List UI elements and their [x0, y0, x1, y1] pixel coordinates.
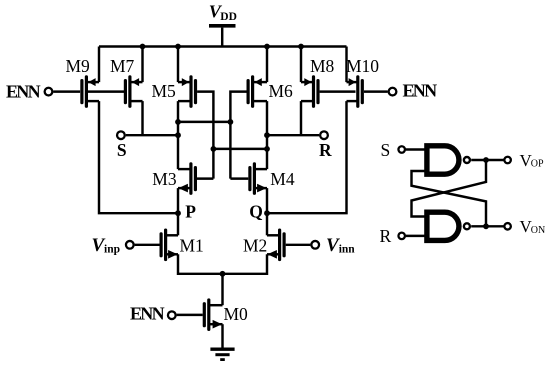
wire S to U1 input [406, 148, 426, 150]
label ENN bottom [130, 304, 165, 324]
label VOP [520, 151, 545, 170]
VDD supply bar [209, 26, 236, 47]
terminal ENN bottom [168, 311, 176, 319]
svg-text:ENN: ENN [6, 82, 41, 102]
svg-text:S: S [381, 140, 391, 160]
svg-text:M5: M5 [152, 81, 177, 101]
wire M8/M10 gates to ENN [320, 90, 388, 92]
label R input [380, 226, 392, 246]
wire M4 gate stub [230, 177, 248, 179]
svg-text:DD: DD [220, 11, 237, 23]
node tail dot [220, 271, 226, 277]
label M8 [310, 56, 335, 76]
node P dot [175, 210, 181, 216]
wire cross H1 S-link [175, 119, 233, 125]
transistor M2 [267, 230, 284, 259]
wire node S [126, 132, 181, 138]
svg-text:M2: M2 [243, 235, 267, 255]
wire M0 source to ground [221, 324, 223, 349]
svg-text:ON: ON [531, 225, 545, 236]
wire M1 drain to P [177, 213, 179, 235]
wire R to U2 input [406, 235, 426, 237]
transistor M0 [204, 300, 222, 329]
transistor M3 [178, 164, 195, 193]
svg-text:M4: M4 [270, 169, 295, 189]
wire ENN to M9/M7 gates [53, 90, 124, 92]
wire M2 source to tail [223, 254, 268, 273]
transistor M9 [82, 77, 99, 106]
wire ENN to M0 gate [177, 314, 203, 316]
label ENN right [403, 81, 438, 101]
transistor M4 [250, 164, 267, 193]
wire U2 output to VON [471, 223, 503, 229]
wire M5 drain down node S column [177, 101, 179, 169]
node Q dot [264, 210, 270, 216]
transistor M1 [161, 230, 178, 259]
terminal R input [398, 233, 405, 240]
wire top VDD rail [99, 45, 347, 47]
ground [210, 349, 234, 359]
wire M6 gate to node S (V2) [230, 92, 246, 179]
wire M10 source to rail [345, 47, 347, 83]
svg-text:M10: M10 [346, 56, 379, 76]
label M5 [152, 81, 177, 101]
wire Vinn to M2 gate [286, 244, 311, 246]
terminal R [320, 131, 328, 139]
label S node [117, 140, 127, 160]
NAND gate U1 (top) [427, 146, 470, 174]
label R node [319, 140, 332, 160]
wire M5 gate to node R (V1) [197, 92, 213, 179]
label M2 [243, 235, 267, 255]
wire M4 source to node Q [266, 188, 268, 213]
transistor M10 [347, 77, 363, 106]
wire M8 source to rail [298, 44, 304, 83]
label M1 [180, 235, 204, 255]
svg-text:Q: Q [249, 201, 263, 221]
terminal Vinp [126, 241, 134, 249]
label M4 [270, 169, 295, 189]
label M0 [224, 304, 249, 324]
terminal ENN right [389, 88, 397, 96]
label VON [520, 217, 546, 236]
svg-text:ENN: ENN [130, 304, 165, 324]
label M7 [110, 56, 135, 76]
terminal ENN left [45, 88, 53, 96]
svg-text:OP: OP [531, 159, 544, 170]
wire M10 drain to node Q [267, 101, 347, 213]
terminal VOP [504, 157, 511, 164]
wire cross H2 R-link [211, 146, 270, 152]
label P node [185, 201, 196, 221]
svg-text:inp: inp [104, 243, 120, 255]
svg-text:M0: M0 [224, 304, 249, 324]
svg-text:P: P [185, 201, 196, 221]
wire M8 drain to node R [300, 101, 302, 135]
svg-text:inn: inn [339, 243, 356, 255]
wire M0 drain to tail [221, 274, 223, 305]
svg-text:S: S [117, 140, 127, 160]
terminal S input [398, 146, 405, 153]
svg-text:R: R [380, 226, 392, 246]
wire M6 drain down node R column [266, 101, 268, 169]
wire U1 output to VOP [471, 157, 503, 163]
label VDD [209, 1, 237, 23]
label M9 [66, 56, 91, 76]
transistor M8 [301, 77, 318, 106]
wire M7 drain to node S [141, 101, 143, 135]
svg-text:R: R [319, 140, 332, 160]
wire M3 source to node P [177, 188, 179, 213]
wire M5 source to rail [175, 44, 181, 83]
terminal Vinn [311, 241, 319, 249]
wire VON to U1 input (cross) [412, 171, 487, 226]
transistor M5 [178, 77, 196, 106]
label M6 [269, 81, 294, 101]
svg-text:M8: M8 [310, 56, 335, 76]
wire M7 source to rail [140, 44, 146, 83]
wire M9 drain to node P [99, 101, 178, 213]
svg-text:M1: M1 [180, 235, 204, 255]
label Vinn [326, 235, 355, 256]
label M10 [346, 56, 379, 76]
wire node R [264, 132, 319, 138]
wire M2 drain to Q [266, 213, 268, 235]
transistor M7 [125, 77, 142, 106]
NAND gate U2 (bottom) [427, 212, 470, 240]
svg-text:M7: M7 [110, 56, 135, 76]
wire M9 source to rail [98, 47, 100, 83]
label S input [381, 140, 391, 160]
label Vinp [92, 235, 121, 256]
svg-text:M9: M9 [66, 56, 91, 76]
label M3 [152, 169, 177, 189]
label ENN left [6, 82, 41, 102]
wire Vinp to M1 gate [135, 244, 160, 246]
svg-text:M3: M3 [152, 169, 177, 189]
wire M3 gate stub [197, 177, 213, 179]
svg-text:ENN: ENN [403, 81, 438, 101]
transistor M6 [248, 77, 267, 106]
wire M1 source to tail [178, 254, 223, 273]
terminal S [117, 131, 125, 139]
terminal VON [504, 223, 511, 230]
wire VOP to U2 input (cross) [412, 160, 487, 217]
wire M6 source to rail [264, 44, 270, 83]
svg-text:M6: M6 [269, 81, 294, 101]
label Q node [249, 201, 263, 221]
